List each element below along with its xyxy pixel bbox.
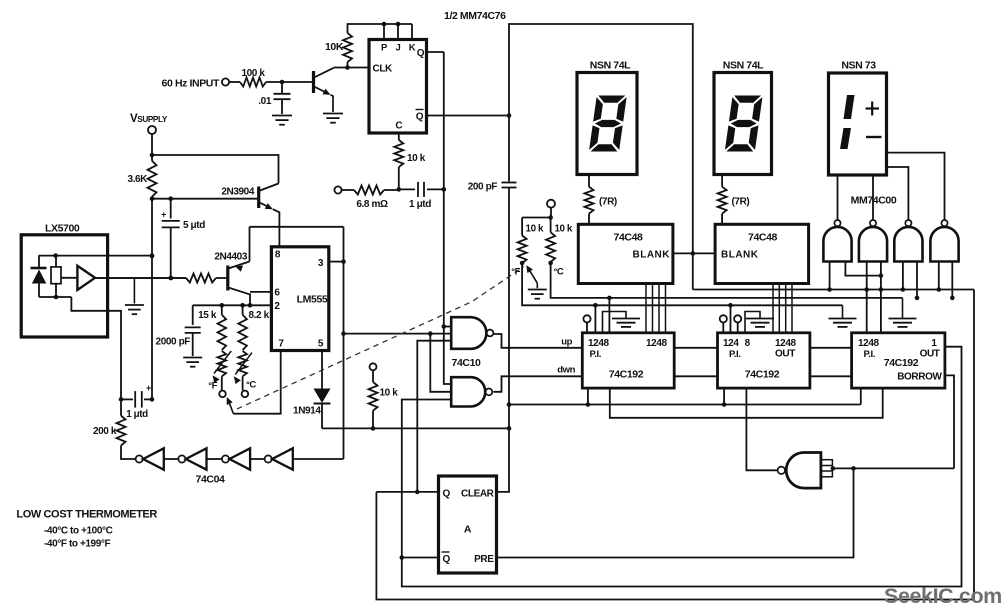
- node junction: [548, 261, 553, 266]
- node junction: [507, 426, 512, 431]
- svg-text:124: 124: [723, 338, 739, 349]
- wire K stub: [411, 24, 413, 40]
- node 60Hz input label: [162, 78, 220, 90]
- display DS1 NSN 74L: [577, 60, 637, 175]
- wire gate inputs g2: [864, 262, 883, 333]
- label LX5700: [45, 223, 80, 235]
- wire supply down: [151, 197, 153, 400]
- svg-text:3: 3: [318, 258, 324, 269]
- wire 2N4403 emitter up: [249, 227, 251, 262]
- node Qbar junction: [507, 113, 512, 118]
- inverter U4a: [136, 448, 164, 469]
- label plus sign: [866, 102, 880, 116]
- flip-flop U1 1/2 MM74C76: [369, 40, 427, 134]
- svg-text:8.2 k: 8.2 k: [249, 310, 270, 321]
- svg-text:P.I.: P.I.: [590, 349, 601, 360]
- counter U9 74C192: [582, 333, 674, 388]
- node junction: [507, 402, 512, 407]
- wire collector to CLK: [334, 67, 369, 69]
- svg-text:7: 7: [278, 339, 284, 350]
- resistor internal: [51, 256, 61, 297]
- wire internal bottom rail: [39, 296, 71, 298]
- terminal PI1 u10: [720, 315, 727, 333]
- label dwn: [557, 365, 575, 376]
- svg-text:2N3904: 2N3904: [221, 187, 254, 198]
- transistor Q3 2N4403: [214, 252, 271, 306]
- wire u9 bottom stub: [586, 388, 591, 407]
- svg-text:-40°F to +199°F: -40°F to +199°F: [44, 539, 110, 550]
- wire gate inputs g1: [827, 262, 881, 292]
- node junction: [442, 324, 447, 329]
- wire: [207, 458, 222, 460]
- svg-text:.01: .01: [258, 96, 272, 107]
- svg-text:K: K: [409, 43, 416, 54]
- switch wiper: [227, 351, 281, 414]
- wire sign b: [887, 167, 909, 220]
- resistor 10k pullup: [369, 363, 399, 428]
- wire reset line: [322, 427, 509, 429]
- svg-text:74C04: 74C04: [196, 474, 226, 486]
- diode internal: [31, 256, 47, 297]
- wire up line: [493, 334, 582, 348]
- svg-text:100 k: 100 k: [241, 68, 265, 79]
- wire pin3 bus down: [343, 227, 345, 459]
- svg-text:+: +: [161, 210, 166, 220]
- svg-text:BORROW: BORROW: [897, 372, 942, 383]
- svg-text:74C192: 74C192: [884, 357, 919, 369]
- svg-text:10 k: 10 k: [407, 153, 426, 164]
- svg-text:Q: Q: [443, 554, 451, 565]
- svg-text:1248: 1248: [588, 338, 609, 349]
- svg-text:74C10: 74C10: [452, 357, 482, 369]
- svg-text:5 μtd: 5 μtd: [183, 220, 205, 231]
- wire gate inputs g4: [937, 262, 955, 301]
- display DS2 NSN 74L: [714, 60, 772, 175]
- node junction: [53, 253, 58, 258]
- wire clock rail: [693, 289, 974, 291]
- label title: [16, 509, 157, 521]
- svg-text:Q: Q: [443, 489, 451, 500]
- svg-text:°C: °C: [554, 267, 564, 278]
- svg-text:up: up: [561, 337, 572, 348]
- gate U5a 74C10: [451, 317, 493, 349]
- resistor 10k below C: [394, 133, 425, 189]
- wire C rail: [551, 263, 903, 298]
- node junction: [691, 251, 696, 256]
- wire inverter input: [293, 458, 343, 460]
- node junction: [248, 303, 253, 308]
- watermark: [884, 584, 1002, 608]
- wire P stub: [383, 24, 385, 40]
- resistor 10K: [325, 33, 352, 68]
- gate U8d: [930, 220, 958, 262]
- wire sign c: [837, 175, 839, 220]
- svg-text:1 μtd: 1 μtd: [409, 199, 431, 210]
- op-amp U2 LM555 box: [271, 247, 328, 351]
- svg-text:C: C: [395, 121, 402, 132]
- node junction: [150, 254, 155, 259]
- label degC right: [554, 267, 564, 278]
- op-amp internal buffer: [61, 266, 95, 290]
- wire BCD bus 2: [773, 284, 792, 333]
- resistor 200k: [93, 399, 135, 459]
- sensor U3 LX5700 box: [21, 235, 107, 337]
- digit 8 display1: [588, 95, 627, 152]
- capacitor 2000pF: [156, 305, 201, 356]
- terminal C contact: [242, 391, 249, 398]
- svg-text:1248: 1248: [858, 338, 879, 349]
- wire load line: [509, 388, 861, 404]
- svg-text:2N4403: 2N4403: [214, 252, 247, 263]
- wire sensor output: [95, 277, 186, 279]
- svg-text:10 k: 10 k: [555, 224, 573, 235]
- svg-text:1248: 1248: [646, 338, 667, 349]
- node pin3 junction: [341, 259, 346, 264]
- wire blank link: [673, 252, 715, 254]
- capacitor 200pF: [468, 116, 517, 429]
- svg-text:°C: °C: [246, 380, 256, 391]
- svg-text:Q: Q: [416, 112, 424, 123]
- wire Q of A: [376, 490, 438, 495]
- diode 1N914: [293, 351, 330, 429]
- label MM74C00: [851, 195, 897, 207]
- wire Q bus to gate2: [444, 327, 451, 385]
- svg-text:°F: °F: [208, 380, 217, 391]
- ground: [183, 358, 202, 367]
- wire BCD bus 1: [646, 284, 666, 333]
- wire: [522, 217, 551, 219]
- wire u10 bottom stub: [722, 388, 727, 407]
- resistor 8.2k trimmer: [234, 305, 270, 390]
- wire F rail: [522, 263, 842, 305]
- wire clear up: [497, 428, 510, 492]
- svg-text:5: 5: [318, 339, 324, 350]
- wire PI8 u9: [607, 296, 612, 333]
- terminal PI1 u9: [583, 315, 590, 333]
- svg-text:J: J: [396, 43, 401, 54]
- svg-text:VSUPPLY: VSUPPLY: [130, 113, 168, 125]
- svg-text:1248: 1248: [775, 338, 796, 349]
- digit 8 display2: [724, 95, 763, 152]
- resistor 7R display2: [718, 175, 750, 225]
- node junction: [220, 303, 225, 308]
- svg-text:A: A: [464, 524, 472, 536]
- svg-text:1: 1: [931, 338, 937, 349]
- svg-text:74C192: 74C192: [745, 369, 780, 381]
- svg-text:BLANK: BLANK: [633, 250, 671, 261]
- svg-text:1 μtd: 1 μtd: [126, 409, 148, 420]
- capacitor 5utd: [161, 199, 205, 278]
- gate U8c: [894, 220, 922, 262]
- wire right edge down: [973, 290, 975, 600]
- wire: [229, 81, 240, 83]
- terminal 6.8m input: [334, 186, 341, 193]
- resistor 3.6K: [127, 161, 156, 197]
- wire pre line: [497, 468, 854, 557]
- wire dashed gang link: [237, 267, 524, 410]
- gate U8b: [859, 220, 887, 262]
- svg-text:P.I.: P.I.: [864, 349, 875, 360]
- svg-text:6: 6: [274, 288, 280, 299]
- terminal 60Hz input: [222, 78, 229, 85]
- node junction: [397, 187, 402, 192]
- node junction: [150, 196, 155, 201]
- capacitor 1utd integrator: [119, 383, 155, 420]
- wire PI u10: [728, 303, 733, 333]
- svg-text:2: 2: [274, 301, 280, 312]
- wire Q vertical bus: [443, 52, 445, 327]
- resistor 15k trimmer: [198, 305, 231, 390]
- display DS3 NSN 73: [829, 60, 887, 176]
- svg-text:NSN 74L: NSN 74L: [723, 60, 764, 72]
- svg-text:8: 8: [745, 338, 751, 349]
- node junction: [831, 466, 836, 471]
- wire internal top rail: [39, 255, 153, 257]
- wire Qbar up and across top: [509, 24, 693, 290]
- ground rail F: [829, 305, 857, 327]
- svg-text:(7R): (7R): [732, 197, 750, 208]
- ground rail C: [889, 298, 917, 327]
- node junction: [168, 276, 173, 281]
- label degF right: [511, 267, 520, 278]
- svg-text:P.I.: P.I.: [729, 349, 740, 360]
- ground: [272, 116, 292, 125]
- label up: [561, 337, 572, 348]
- node junction: [548, 215, 553, 220]
- svg-text:15 k: 15 k: [198, 310, 217, 321]
- counter U11 74C192: [852, 333, 945, 388]
- wire counter links dwn: [674, 375, 851, 377]
- ground PI u10: [745, 312, 774, 333]
- wire PI2 u9: [593, 303, 598, 333]
- wire gate inputs g3: [901, 262, 920, 301]
- switch wiper right: [526, 265, 537, 288]
- ground wiper: [528, 290, 547, 299]
- wire Qbar down rail: [402, 347, 962, 587]
- inverter U4d: [265, 448, 293, 469]
- svg-text:NSN 73: NSN 73: [841, 60, 876, 72]
- wire emitter rail: [250, 226, 344, 228]
- resistor 7R display1: [585, 175, 617, 225]
- node junction: [168, 196, 173, 201]
- wire J stub: [397, 24, 399, 40]
- svg-text:PRE: PRE: [474, 554, 494, 565]
- label 74C10: [452, 357, 482, 369]
- wire gate2 in3 from Qbar of A: [402, 400, 451, 558]
- wire carry line: [610, 388, 883, 418]
- svg-text:BLANK: BLANK: [721, 250, 759, 261]
- wire pin3 to 74C10: [344, 333, 452, 335]
- ground: [323, 114, 343, 123]
- resistor 100k: [240, 68, 266, 87]
- node junction: [150, 253, 155, 258]
- node junction: [169, 276, 174, 281]
- terminal supply right: [547, 200, 555, 208]
- label 1/2 MM74C76: [444, 10, 506, 22]
- svg-text:LX5700: LX5700: [45, 223, 80, 235]
- wire borrow up: [945, 375, 954, 468]
- resistor 10k C: [546, 218, 573, 262]
- wire pin2 rail: [193, 304, 272, 306]
- gate U5b 74C10: [451, 377, 492, 406]
- svg-text:10K: 10K: [325, 41, 344, 53]
- svg-text:3.6K: 3.6K: [127, 174, 148, 185]
- wire supply rail: [152, 155, 279, 184]
- wire feedback to integrator: [71, 297, 121, 399]
- node J junction: [396, 22, 401, 27]
- wire counter links up: [674, 347, 851, 349]
- ground sensor: [125, 278, 144, 314]
- svg-text:SeekIC.com: SeekIC.com: [884, 584, 1002, 608]
- wire: [550, 208, 552, 218]
- wire pin3 out: [329, 261, 344, 263]
- wire Qbar output: [427, 115, 510, 117]
- decoder U6 74C48: [578, 224, 673, 283]
- svg-text:+: +: [146, 383, 151, 393]
- terminal PI2 u10: [734, 315, 741, 333]
- wire: [164, 458, 178, 460]
- svg-text:10 k: 10 k: [380, 388, 399, 399]
- label range C: [44, 526, 113, 537]
- node junction: [341, 331, 346, 336]
- transistor Q1 2N3904-like: [314, 68, 334, 112]
- wire borrow input: [833, 467, 954, 469]
- wire to gate2 mid: [430, 334, 451, 392]
- svg-text:1N914: 1N914: [293, 406, 321, 417]
- inverter U4b: [178, 448, 206, 469]
- flip-flop U13 A: [439, 476, 497, 573]
- counter U10 74C192: [718, 333, 810, 388]
- label degC: [246, 380, 256, 391]
- wire: [151, 134, 153, 161]
- svg-text:74C48: 74C48: [614, 232, 644, 244]
- resistor 6.8mohm: [342, 186, 399, 211]
- resistor 10k F: [518, 218, 544, 264]
- ground PI u9: [603, 312, 641, 333]
- svg-text:10 k: 10 k: [526, 224, 544, 235]
- gate U12 borrow NAND: [778, 453, 833, 489]
- label 74C04: [196, 474, 226, 486]
- wire input a1: [444, 326, 451, 328]
- svg-text:OUT: OUT: [775, 349, 795, 360]
- wire u10 clock stub: [746, 388, 777, 470]
- node junction: [371, 426, 376, 431]
- svg-text:200 pF: 200 pF: [468, 182, 498, 193]
- label range F: [44, 539, 110, 550]
- terminal Vsupply: [148, 126, 156, 134]
- svg-text:(7R): (7R): [599, 197, 617, 208]
- capacitor .01: [258, 82, 290, 114]
- wire: [266, 81, 312, 83]
- svg-text:74C192: 74C192: [609, 369, 644, 381]
- svg-text:dwn: dwn: [557, 365, 575, 376]
- node junction: [520, 261, 525, 266]
- node junction: [851, 466, 856, 471]
- wire Q output: [427, 51, 444, 53]
- wire sign a: [887, 153, 945, 220]
- label degF: [208, 380, 217, 391]
- wire dwn line: [493, 376, 582, 392]
- label minus sign: [866, 136, 882, 138]
- svg-text:1/2 MM74C76: 1/2 MM74C76: [444, 10, 506, 22]
- label Vsupply: [130, 113, 168, 125]
- node junction: [442, 187, 447, 192]
- svg-text:Q: Q: [417, 48, 425, 59]
- capacitor 1utd coupling: [399, 182, 444, 210]
- svg-text:CLEAR: CLEAR: [461, 489, 495, 500]
- svg-text:NSN 74L: NSN 74L: [590, 60, 631, 72]
- node junction: [428, 331, 433, 336]
- gate U8a: [823, 220, 851, 262]
- svg-text:200 k: 200 k: [93, 426, 117, 437]
- node base junction: [280, 80, 285, 85]
- inverter U4c: [222, 448, 250, 469]
- svg-text:LM555: LM555: [297, 294, 328, 306]
- node junction: [54, 295, 59, 300]
- wire 10K top to PJ rail: [348, 24, 413, 33]
- transistor Q2 2N3904: [152, 184, 279, 247]
- svg-text:2000 pF: 2000 pF: [156, 337, 191, 348]
- svg-text:6.8 mΩ: 6.8 mΩ: [356, 199, 388, 210]
- svg-text:OUT: OUT: [920, 349, 940, 360]
- svg-text:LOW COST THERMOMETER: LOW COST THERMOMETER: [16, 509, 157, 521]
- wire Q down rail: [376, 492, 974, 600]
- svg-text:60 Hz INPUT: 60 Hz INPUT: [162, 78, 220, 90]
- wire gate1 in3 from Q of A: [417, 341, 451, 492]
- wire sign d: [872, 175, 874, 220]
- node junction: [150, 153, 155, 158]
- svg-text:-40°C to +100°C: -40°C to +100°C: [44, 526, 113, 537]
- wire Qbar junction: [400, 555, 439, 560]
- svg-text:CLK: CLK: [373, 64, 394, 75]
- wire: [250, 458, 265, 460]
- svg-text:MM74C00: MM74C00: [851, 195, 897, 207]
- svg-text:74C48: 74C48: [748, 232, 778, 244]
- resistor base 2N4403: [95, 274, 227, 283]
- digit 1 display3: [840, 95, 855, 149]
- svg-text:°F: °F: [511, 267, 520, 278]
- terminal F contact: [219, 391, 226, 398]
- node CLK junction: [345, 65, 350, 70]
- svg-text:8: 8: [275, 250, 281, 261]
- node junction: [240, 303, 245, 308]
- decoder U7 74C48: [715, 224, 809, 283]
- node P junction: [382, 22, 387, 27]
